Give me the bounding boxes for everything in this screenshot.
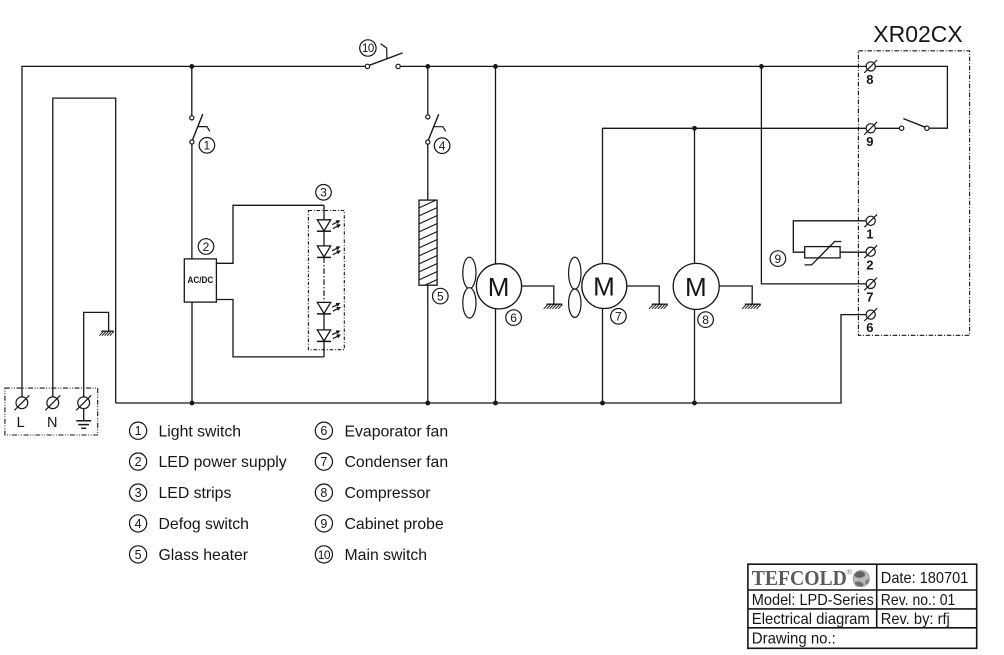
svg-text:1: 1 — [866, 226, 873, 241]
label circled 1 — [199, 138, 215, 154]
terminal 9 — [864, 122, 877, 135]
svg-text:Compressor: Compressor — [345, 485, 431, 502]
svg-text:TEFCOLD: TEFCOLD — [752, 566, 847, 590]
node dot: light switch branch on top bus — [189, 64, 194, 69]
wire defog branch — [427, 66, 429, 114]
LED D4 — [317, 330, 341, 342]
wire LED D3 to D4 — [323, 314, 325, 330]
wire motor M6 to bottom bus — [495, 309, 497, 403]
condenser fan motor M7 — [582, 264, 627, 309]
mains terminal block dashed enclosure — [5, 388, 98, 435]
wire LED chain bottom lead — [323, 341, 325, 357]
terminal PE — [76, 395, 91, 410]
svg-text:Evaporator fan: Evaporator fan — [345, 423, 449, 440]
svg-text:8: 8 — [320, 486, 327, 500]
LED power supply U2 AC/DC — [184, 259, 216, 302]
evaporator fan blades — [463, 257, 476, 318]
light switch S1 — [190, 114, 210, 144]
node dot: defog branch on top bus — [425, 64, 430, 69]
wire motor M7 to bottom bus — [602, 309, 604, 404]
svg-text:7: 7 — [615, 310, 622, 324]
terminal 2 — [864, 245, 877, 258]
wire switch S4 to glass heater — [427, 144, 429, 200]
node dot: compressor on bottom bus — [692, 401, 697, 406]
svg-text:Model: LPD-Series: Model: LPD-Series — [752, 592, 874, 609]
wire top bus right segment — [400, 65, 866, 67]
wire LED D1 to D2 — [323, 231, 325, 246]
terminal L — [14, 395, 29, 410]
svg-text:7: 7 — [320, 455, 327, 469]
ground (compressor) — [742, 304, 761, 309]
label circled 10 — [360, 40, 376, 56]
svg-text:M: M — [593, 272, 615, 302]
wire LED chain continuation (dash-dot) — [323, 257, 325, 302]
defog switch S4 — [426, 114, 446, 144]
LED strips dashed enclosure — [308, 211, 344, 350]
svg-text:Electrical diagram: Electrical diagram — [752, 611, 870, 628]
wire terminal 8 to controller relay — [875, 66, 947, 128]
svg-text:10: 10 — [318, 548, 331, 562]
label circled 3 — [316, 185, 332, 201]
svg-text:9: 9 — [775, 252, 782, 266]
LED D1 — [317, 220, 341, 231]
svg-text:Condenser fan: Condenser fan — [345, 454, 449, 471]
node dot: AC/DC branch on bottom bus — [190, 401, 195, 406]
wire terminal 1 to probe — [793, 221, 866, 252]
legend entry 2 LED power supply — [130, 453, 287, 471]
XR02CX controller dashed enclosure — [858, 51, 969, 336]
TEFCOLD globe icon — [853, 570, 869, 586]
svg-text:9: 9 — [320, 517, 327, 531]
ground (condenser fan) — [649, 304, 668, 309]
label circled 9 — [770, 251, 786, 267]
svg-text:10: 10 — [362, 43, 374, 55]
svg-text:Rev. no.: 01: Rev. no.: 01 — [881, 592, 956, 609]
svg-text:1: 1 — [204, 139, 211, 153]
svg-text:6: 6 — [866, 320, 873, 335]
LED D3 — [317, 302, 341, 314]
svg-text:8: 8 — [702, 313, 709, 327]
legend entry 9 Cabinet probe — [315, 515, 444, 533]
TEFCOLD logo — [752, 566, 853, 590]
legend entry 4 Defog switch — [130, 515, 249, 533]
svg-text:LED strips: LED strips — [159, 485, 232, 502]
ground (evaporator fan) — [544, 304, 563, 309]
node dot: condenser fan on bottom bus — [600, 401, 605, 406]
wire relay to terminal 9 — [875, 127, 899, 129]
glass heater R1 (hatched) — [419, 199, 438, 296]
title block table frame — [748, 564, 977, 648]
earth ground symbol — [76, 409, 91, 429]
wire motor M8 to ground — [719, 286, 752, 304]
evaporator fan motor M6 — [476, 264, 521, 309]
terminal 7 — [864, 278, 877, 291]
LED D2 — [317, 246, 341, 258]
node dot: evaporator fan branch on top bus — [493, 64, 498, 69]
wire AC/DC minus output to LED chain bottom — [216, 300, 324, 357]
svg-text:Drawing no.:: Drawing no.: — [752, 631, 836, 648]
wire fan feed line from terminal 9 — [603, 128, 867, 263]
terminal N — [45, 395, 60, 410]
cabinet probe RT1 (thermistor) — [805, 242, 842, 265]
svg-text:8: 8 — [866, 72, 873, 87]
label circled 7 — [611, 309, 627, 325]
wire probe to terminal 2 — [840, 251, 866, 253]
wire LED chain top lead — [323, 205, 325, 220]
wire AC/DC plus output to LED chain top — [216, 205, 324, 263]
wire top bus to terminal 7 — [761, 66, 866, 284]
wire switch S1 to AC/DC — [191, 144, 193, 259]
svg-text:Main switch: Main switch — [345, 547, 428, 564]
legend entry 7 Condenser fan — [315, 453, 448, 471]
wire light switch branch — [191, 66, 193, 115]
label circled 2 — [198, 239, 214, 255]
compressor motor M8 — [673, 263, 719, 309]
svg-text:Light switch: Light switch — [159, 423, 242, 440]
wire neutral riser from terminal N to bottom bus — [53, 98, 116, 403]
legend entry 1 Light switch — [130, 422, 242, 440]
terminal 1 — [864, 214, 877, 227]
legend entry 5 Glass heater — [130, 546, 249, 564]
wire motor M8 to bottom bus — [694, 309, 696, 403]
label circled 8 — [698, 312, 714, 328]
wire glass heater to bottom bus — [427, 285, 429, 403]
wire evaporator fan branch — [495, 66, 497, 263]
svg-text:4: 4 — [135, 517, 142, 531]
svg-text:LED power supply: LED power supply — [159, 454, 287, 471]
svg-text:2: 2 — [135, 455, 142, 469]
wire top bus left segment — [22, 66, 365, 397]
node dot: compressor branch on fan feed line — [692, 126, 697, 131]
svg-text:2: 2 — [866, 257, 873, 272]
svg-text:L: L — [17, 415, 25, 431]
label circled 5 — [433, 288, 449, 304]
svg-text:M: M — [685, 272, 707, 302]
legend entry 8 Compressor — [315, 484, 430, 502]
condenser fan blades — [569, 257, 581, 317]
svg-text:3: 3 — [320, 186, 327, 200]
legend entry 6 Evaporator fan — [315, 422, 448, 440]
svg-text:N: N — [47, 415, 57, 431]
svg-text:M: M — [488, 272, 510, 302]
wire motor M7 to ground — [627, 286, 660, 304]
wire compressor branch — [694, 128, 696, 263]
node dot: heater branch on bottom bus — [425, 401, 430, 406]
svg-text:4: 4 — [439, 139, 446, 153]
svg-text:6: 6 — [510, 311, 517, 325]
controller relay contact — [899, 119, 929, 131]
svg-text:Date: 180701: Date: 180701 — [881, 570, 969, 587]
svg-text:7: 7 — [866, 290, 873, 305]
svg-text:Rev. by: rfj: Rev. by: rfj — [881, 611, 950, 628]
svg-text:AC/DC: AC/DC — [188, 275, 214, 285]
svg-text:5: 5 — [437, 289, 444, 303]
svg-text:®: ® — [847, 568, 853, 577]
legend entry 3 LED strips — [130, 484, 232, 502]
wire motor M6 to ground — [521, 286, 553, 304]
wire AC/DC to bottom bus — [191, 302, 193, 403]
wire terminal 6 to bottom bus — [116, 315, 867, 403]
svg-text:3: 3 — [135, 486, 142, 500]
svg-text:XR02CX: XR02CX — [873, 21, 962, 47]
svg-text:5: 5 — [135, 548, 142, 562]
svg-text:6: 6 — [320, 424, 327, 438]
label circled 6 — [506, 310, 522, 326]
node dot: controller supply branch on top bus — [759, 64, 764, 69]
terminal 6 — [864, 308, 877, 321]
svg-text:9: 9 — [866, 134, 873, 149]
svg-text:2: 2 — [203, 240, 210, 254]
svg-text:Cabinet probe: Cabinet probe — [345, 516, 444, 533]
terminal 8 — [864, 60, 877, 73]
ground (chassis, mains earth) — [99, 331, 114, 336]
label circled 4 — [434, 138, 450, 154]
node dot: evaporator fan on bottom bus — [493, 401, 498, 406]
legend entry 10 Main switch — [315, 546, 427, 564]
svg-text:1: 1 — [135, 424, 142, 438]
svg-text:Defog switch: Defog switch — [159, 516, 249, 533]
wire earth lead from terminal PE — [84, 312, 109, 397]
main switch S10 — [365, 44, 402, 69]
svg-text:Glass heater: Glass heater — [159, 547, 249, 564]
